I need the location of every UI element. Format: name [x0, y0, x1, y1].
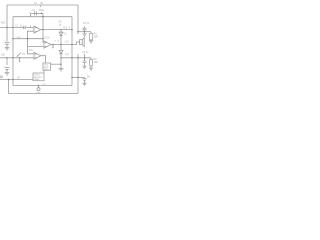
- wire left bus x7 upper segment: [6, 5, 8, 41]
- speaker LS1: [80, 38, 85, 47]
- svg-text:IC1: IC1: [63, 26, 67, 29]
- ground: [82, 83, 86, 85]
- node arrow stub: [52, 45, 54, 48]
- wire volume wiper rail y57.6: [0, 57, 34, 59]
- svg-text:S1: S1: [34, 2, 38, 5]
- ground: [59, 69, 64, 71]
- node P1 stub: [19, 57, 20, 58]
- arrowhead potentiometer: [17, 55, 19, 57]
- node B: [12, 27, 13, 28]
- svg-text:LS1: LS1: [65, 40, 70, 43]
- svg-text:6: 6: [58, 40, 60, 43]
- node C2 out: [41, 13, 42, 14]
- ground: [5, 73, 10, 75]
- wire U1A feedback: [28, 31, 35, 54]
- svg-text:+: +: [80, 60, 82, 62]
- wire bottom rail y93.5: [9, 93, 79, 95]
- op-amp U1A: [34, 26, 41, 33]
- node T: [84, 31, 85, 32]
- wire U1C output: [41, 56, 46, 63]
- wire pot stub: [19, 58, 21, 62]
- ground: [89, 68, 93, 70]
- wire U1B inverting input y46.6: [28, 46, 45, 48]
- svg-text:IC1c: IC1c: [29, 49, 35, 52]
- svg-text:P1: P1: [22, 53, 26, 56]
- wire right row2 y57.6: [61, 57, 91, 59]
- svg-text:0V: 0V: [17, 77, 20, 80]
- node P: [71, 57, 72, 58]
- wire bus x43: [43, 13, 44, 42]
- IC block U3: [33, 73, 44, 81]
- wire left inner bus x13: [12, 17, 14, 80]
- node Y: [38, 85, 39, 86]
- wire bottom rail y85.5: [13, 85, 72, 87]
- capacitor C7: [82, 78, 86, 83]
- svg-text:C5 1u: C5 1u: [82, 51, 89, 54]
- wire: [60, 54, 62, 68]
- capacitor C6: [5, 67, 10, 72]
- wire U1A output y29.6: [41, 29, 72, 31]
- svg-text:1kHz: 1kHz: [44, 69, 49, 71]
- node K: [12, 57, 13, 58]
- wire diode bus x61: [60, 30, 62, 32]
- connector J1: [37, 88, 40, 91]
- node F: [42, 29, 43, 30]
- node N: [71, 44, 72, 45]
- svg-text:100u: 100u: [39, 9, 45, 12]
- svg-text:9V: 9V: [40, 2, 43, 5]
- svg-text:D1: D1: [64, 33, 68, 36]
- node O: [60, 57, 61, 58]
- svg-text:C1: C1: [15, 24, 19, 27]
- op-amp U1B: [44, 41, 51, 48]
- capacitor C1: [24, 26, 25, 29]
- node W: [12, 79, 13, 80]
- wire right row1 y31.7: [78, 31, 91, 33]
- potentiometer P1 wiper: [18, 53, 21, 56]
- node Z: [60, 63, 61, 64]
- svg-text:MIC: MIC: [1, 22, 6, 25]
- ground: [82, 34, 86, 36]
- wire block link: [43, 70, 45, 73]
- diode D2: [59, 50, 63, 53]
- wire C2 branch: [31, 13, 43, 16]
- node I: [42, 16, 43, 17]
- wire right outer bus x78 upper: [77, 5, 79, 34]
- svg-text:UM66: UM66: [34, 79, 40, 81]
- wire: [60, 36, 62, 51]
- svg-text:10R: 10R: [93, 35, 98, 38]
- node tick C1: [30, 26, 32, 28]
- wire top supply rail: [7, 4, 78, 6]
- wire right outer bus x78 lower: [77, 54, 79, 94]
- wire: [84, 32, 86, 34]
- node H: [71, 29, 72, 30]
- node M: [60, 44, 61, 45]
- node S: [77, 31, 78, 32]
- ground: [82, 66, 86, 68]
- wire second rail y15.5: [13, 16, 72, 18]
- node D: [27, 38, 28, 39]
- node J: [6, 57, 7, 58]
- arrowhead pot stub: [19, 61, 21, 63]
- capacitor C4: [83, 26, 87, 31]
- svg-text:A: A: [69, 26, 71, 29]
- op-amp U1C plus minus: [35, 53, 37, 57]
- wire U1B output y44.3: [51, 42, 80, 45]
- svg-text:+: +: [81, 27, 83, 29]
- svg-text:1k: 1k: [59, 23, 62, 26]
- svg-text:100k: 100k: [16, 37, 20, 39]
- node L: [52, 44, 53, 45]
- ground: [89, 41, 93, 43]
- svg-text:+: +: [81, 73, 83, 76]
- svg-text:C4 1n: C4 1n: [83, 22, 90, 25]
- svg-text:4V7: 4V7: [65, 53, 70, 56]
- wire battery feed y79.5: [2, 79, 34, 81]
- wire left bus x7 lower segment: [6, 58, 8, 65]
- battery B1: [0, 77, 3, 79]
- wire right inner bus x72: [71, 17, 73, 86]
- wire feedback node y38.5: [13, 38, 43, 40]
- wire mic input y27: [0, 26, 34, 28]
- capacitor C3: [5, 42, 10, 47]
- svg-text:1u: 1u: [20, 24, 23, 27]
- node U: [71, 77, 72, 78]
- wire box to diode bus y63.8: [51, 63, 61, 65]
- svg-text:9V: 9V: [87, 75, 90, 78]
- ground: [5, 48, 10, 50]
- resistor R4: [90, 58, 92, 60]
- wire x13 drop: [12, 80, 14, 86]
- svg-text:IC1b: IC1b: [44, 36, 50, 39]
- resistor R3: [90, 32, 92, 34]
- wire connector stub: [38, 86, 40, 88]
- node tick S1: [39, 5, 41, 7]
- svg-text:B1: B1: [0, 75, 3, 77]
- capacitor C5: [84, 54, 86, 58]
- svg-text:10k: 10k: [1, 53, 6, 56]
- diode D1: [59, 32, 63, 35]
- node G: [60, 29, 61, 30]
- node Q: [77, 57, 78, 58]
- arrowhead on stub: [52, 47, 54, 49]
- capacitor C2: [35, 11, 37, 15]
- op-amp U1A plus minus: [35, 27, 37, 32]
- node V: [77, 77, 78, 78]
- op-amp U1B plus minus: [45, 42, 47, 47]
- wire x8.5 drop: [8, 80, 10, 94]
- node A: [6, 27, 7, 28]
- svg-text:10R: 10R: [93, 61, 98, 64]
- wire bottom node y77.5: [72, 77, 85, 79]
- node R: [84, 57, 85, 58]
- IC block U2: [43, 63, 51, 70]
- node C: [12, 38, 13, 39]
- node X: [8, 79, 9, 80]
- svg-text:7: 7: [54, 40, 56, 43]
- op-amp U1C: [34, 52, 41, 59]
- svg-text:SPK: SPK: [36, 92, 41, 94]
- node E: [42, 38, 43, 39]
